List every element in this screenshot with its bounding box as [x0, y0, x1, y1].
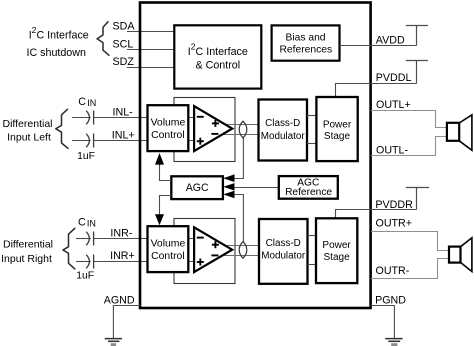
svg-text:AGND: AGND	[104, 295, 135, 307]
capacitor C_IN (INL+)	[86, 134, 93, 148]
svg-text:Stage: Stage	[324, 252, 351, 263]
svg-text:INL+: INL+	[112, 129, 135, 141]
wire OUTR+ to speaker	[371, 232, 449, 251]
svg-text:Power: Power	[323, 119, 352, 130]
block Power Stage right	[316, 218, 357, 283]
block AGC Reference	[279, 176, 338, 199]
svg-text:Stage: Stage	[324, 131, 351, 142]
svg-text:OUTR-: OUTR-	[376, 265, 410, 277]
wire PVDDL feed to left Power Stage	[336, 84, 371, 98]
svg-text:Control: Control	[151, 251, 185, 262]
wire AGC Reference to AGC	[234, 187, 279, 189]
svg-text:Power: Power	[322, 240, 351, 251]
svg-text:Modulator: Modulator	[261, 251, 306, 262]
node bundle ellipse right	[239, 242, 247, 259]
wire Class-D to Power Stage left pair	[307, 116, 316, 144]
svg-text:Class-D: Class-D	[265, 118, 300, 129]
svg-text:AGC: AGC	[186, 182, 209, 194]
wire AGC tap from left channel output	[234, 137, 244, 178]
svg-text:INL-: INL-	[113, 106, 134, 118]
block AGC	[171, 176, 223, 199]
wire AGC to left Volume Control	[160, 164, 172, 181]
svg-text:Differential: Differential	[3, 118, 53, 130]
supply symbol PVDDR	[406, 188, 429, 210]
wire PVDDR feed to right Power Stage	[336, 210, 371, 219]
IC outline	[140, 3, 371, 309]
label Differential Input Left	[3, 118, 53, 143]
op-amp U2 right	[194, 227, 232, 272]
wire Class-D to Power Stage right pair	[308, 236, 317, 265]
wire INR+ from input cap to volume control	[76, 261, 194, 263]
arrowhead into AGC from right tap	[223, 191, 234, 199]
svg-text:AVDD: AVDD	[376, 34, 405, 46]
node bundle ellipse left	[239, 121, 247, 138]
svg-text:Modulator: Modulator	[261, 131, 306, 142]
svg-text:Input Right: Input Right	[1, 253, 52, 265]
svg-text:Control: Control	[151, 130, 185, 141]
wire SDA	[127, 31, 175, 33]
brace I2C interface group	[97, 22, 109, 56]
svg-text:INR-: INR-	[110, 227, 132, 239]
block I2C Interface & Control	[174, 25, 261, 88]
svg-text:Volume: Volume	[151, 118, 186, 129]
svg-text:Reference: Reference	[285, 187, 332, 198]
svg-text:1uF: 1uF	[77, 151, 95, 162]
svg-text:Input Left: Input Left	[7, 131, 51, 143]
arrowhead into AGC from left tap	[223, 174, 234, 182]
brace differential input left	[56, 109, 68, 148]
svg-text:OUTL+: OUTL+	[376, 99, 411, 111]
block Class-D Modulator left	[259, 100, 308, 161]
op-amp U1 left	[194, 106, 232, 151]
capacitor C_IN (INL-)	[86, 111, 93, 125]
block Volume Control right	[148, 226, 189, 272]
wire PGND	[371, 306, 395, 339]
block Power Stage left	[316, 97, 357, 161]
label Differential Input Right	[1, 238, 53, 264]
speaker left	[447, 115, 472, 151]
speaker right	[449, 238, 472, 272]
wire AGND	[113, 306, 140, 339]
ground AGND	[105, 339, 122, 346]
svg-text:PGND: PGND	[375, 294, 406, 306]
wire PVDDL pin	[371, 83, 417, 85]
svg-text:1uF: 1uF	[76, 271, 94, 282]
wire AVDD from Bias to pin	[340, 45, 417, 47]
svg-text:Bias and: Bias and	[285, 33, 325, 44]
svg-text:Volume: Volume	[151, 239, 186, 250]
svg-text:INR+: INR+	[110, 250, 135, 262]
wire INL- from input cap to volume control	[72, 117, 194, 119]
arrowhead up into left Volume Control	[155, 153, 164, 165]
wire PVDDR pin	[371, 209, 417, 211]
block Volume Control left	[148, 105, 189, 151]
arrowhead into AGC from AGC Reference	[223, 183, 234, 191]
wire SCL	[127, 49, 175, 51]
supply symbol PVDDL	[406, 61, 428, 84]
svg-text:OUTL-: OUTL-	[376, 144, 409, 156]
wire op-amp right differential outputs	[222, 246, 259, 256]
svg-text:IC shutdown: IC shutdown	[27, 47, 86, 59]
svg-text:SDA: SDA	[113, 20, 136, 32]
brace differential input right	[63, 228, 75, 269]
ground PGND	[385, 339, 402, 346]
supply symbol AVDD	[406, 26, 428, 46]
svg-text:SCL: SCL	[113, 38, 134, 50]
svg-text:OUTR+: OUTR+	[376, 218, 413, 230]
wire OUTL- to speaker	[371, 137, 447, 156]
svg-text:Class-D: Class-D	[266, 238, 301, 249]
svg-text:References: References	[279, 45, 332, 56]
wire INR- from input cap to volume control	[76, 238, 194, 240]
svg-text:CIN: CIN	[78, 217, 96, 229]
wire AGC to right Volume Control	[160, 196, 172, 215]
block Class-D Modulator right	[259, 219, 308, 284]
block Bias and References	[272, 25, 340, 60]
wire INL+ from input cap to volume control	[72, 140, 194, 142]
svg-text:PVDDR: PVDDR	[375, 199, 413, 211]
svg-text:PVDDL: PVDDL	[376, 72, 412, 84]
wire OUTR- to speaker	[371, 259, 449, 279]
svg-text:CIN: CIN	[78, 96, 96, 108]
feedback loop thin box left channel	[174, 98, 235, 162]
capacitor C_IN (INR+)	[86, 255, 93, 269]
svg-text:Differential: Differential	[3, 238, 53, 250]
wire OUTL+ to speaker	[371, 111, 447, 128]
svg-text:SDZ: SDZ	[113, 56, 135, 68]
capacitor C_IN (INR-)	[86, 232, 93, 246]
svg-text:& Control: & Control	[196, 60, 241, 72]
wire op-amp left differential outputs	[222, 125, 259, 135]
wire AGC tap from right channel output	[234, 195, 244, 243]
wire SDZ	[127, 67, 175, 69]
feedback loop thin box right channel	[174, 219, 235, 284]
arrowhead down into right Volume Control	[155, 214, 164, 225]
